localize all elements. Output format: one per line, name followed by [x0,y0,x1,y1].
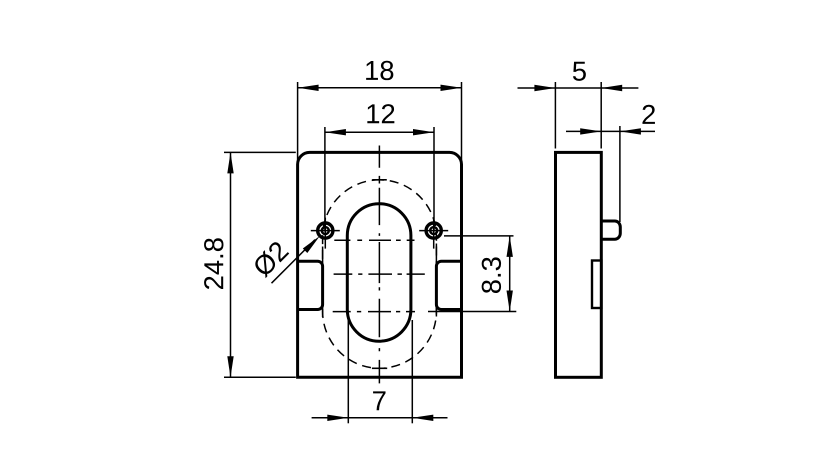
dimension 12: text [367,104,394,123]
dimension 8.3: text [482,257,501,293]
dimension 5: right arrow (outside) [601,85,622,91]
dimension 18: left arrow [298,85,319,91]
side view boss [601,221,620,239]
dimension 18: dimension line [298,87,462,89]
dimension 5: text [573,62,586,81]
dimension 7: extension lines [347,320,349,423]
front view outline [298,152,462,377]
centerline C (slot bottom arc) [333,311,415,313]
hole right (outer circle) [426,223,441,238]
side view notch groove [592,261,601,309]
diameter leader arrow [303,236,320,253]
centerline B (horizontal middle) [334,273,425,275]
dimension 8.3: dimension line [509,236,511,312]
dimension 5: left arrow (outside) [534,85,555,91]
dimension 18: right arrow [441,85,462,91]
dashed stadium (pitch outline) [323,180,437,368]
hole right (inner circle) [430,227,437,234]
slot (obround) [347,204,411,342]
left notch [299,261,323,309]
dimension 7: dimension line [312,417,448,419]
dimension 12: dimension line [325,131,434,133]
dimension 7: left arrow (outside) [327,415,348,421]
dimension 2: text [642,105,654,124]
dimension 24.8: top arrow [227,152,233,173]
hole right crosshair [419,218,448,249]
dimension 8.3: top arrow [507,236,513,257]
dimension 18: text [366,61,393,80]
vertical centerline [378,146,380,384]
ellipse top apex tick [372,179,387,181]
hole left (outer circle) [318,223,333,238]
hole left crosshair [311,218,340,249]
dimension 24.8: bottom arrow [227,356,233,377]
dimension 2: right arrow (outside) [620,128,641,134]
ellipse bottom apex tick [372,367,387,369]
dimension 5: dimension line [518,87,639,89]
dimension 18: extension lines [297,82,299,162]
dimension 2: dimension line [566,130,655,132]
dimension 5: extension lines [554,82,556,149]
diameter leader line [272,240,316,284]
dimension 8.3: bottom arrow [507,291,513,312]
diameter label [251,240,290,279]
dimension 2: left arrow (outside) [580,128,601,134]
side view body [556,152,602,377]
right notch tangent edge line [435,244,437,317]
dimension 12: left arrow [325,129,346,135]
dimension 24.8: dimension line [230,152,232,377]
dimension 8.3: extension lines [444,235,514,237]
dimension 12: extension lines [324,127,326,231]
dimension 2: extension line [619,126,621,222]
dimension 24.8: extension lines [224,151,296,153]
right notch [436,261,460,309]
dimension 24.8: text [204,238,223,289]
dimension 12: right arrow [413,129,434,135]
dimension 7: right arrow (outside) [412,415,433,421]
dimension 7: text [373,391,385,410]
hole left (inner circle) [322,227,329,234]
centerline A (slot top arc) [334,239,414,241]
left notch tangent edge line [322,247,324,318]
